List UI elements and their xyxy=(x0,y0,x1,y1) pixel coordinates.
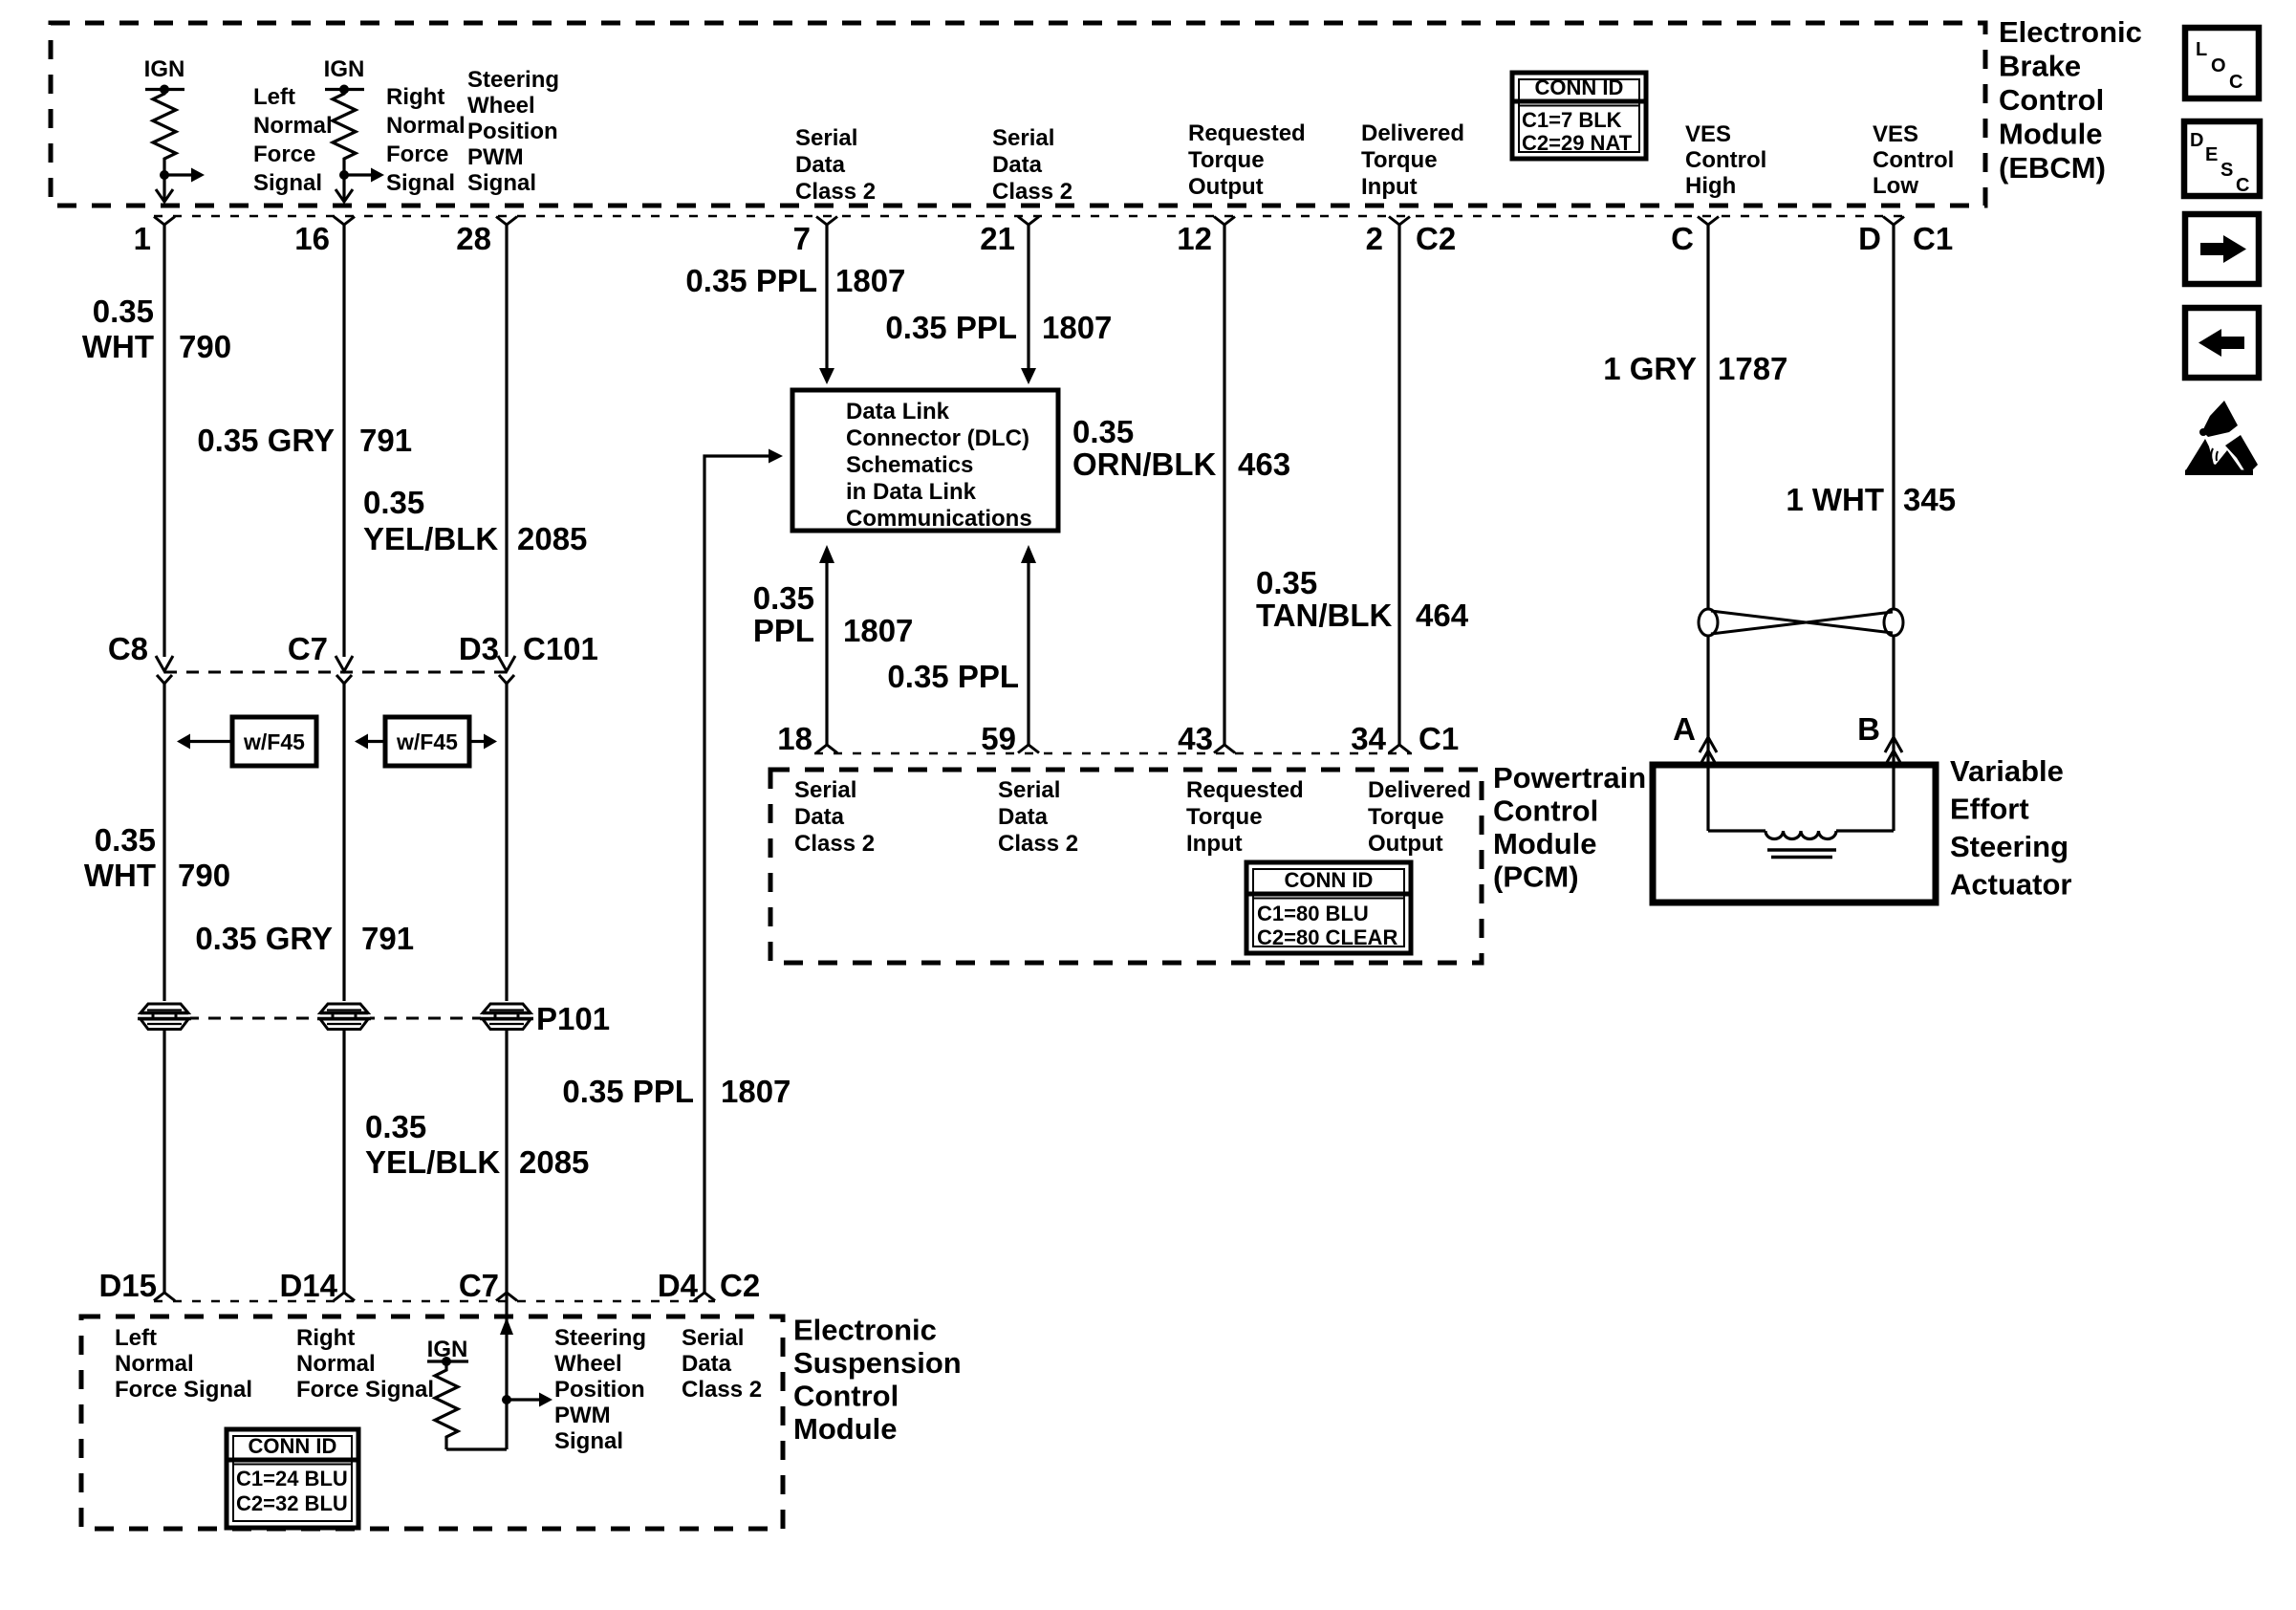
LOC icon box xyxy=(2185,28,2259,98)
svg-text:D14: D14 xyxy=(279,1268,337,1303)
svg-text:Torque: Torque xyxy=(1361,147,1438,173)
svg-text:w/F45: w/F45 xyxy=(396,729,458,754)
svg-text:VES: VES xyxy=(1685,121,1731,147)
wire pin7 down-arrow into DLC xyxy=(825,223,828,370)
svg-text:Wheel: Wheel xyxy=(554,1351,622,1377)
wire pin16 to C101 xyxy=(342,223,345,657)
svg-text:S: S xyxy=(2220,160,2233,181)
svg-text:CONN ID: CONN ID xyxy=(1535,76,1624,99)
svg-text:C1=7 BLK: C1=7 BLK xyxy=(1522,108,1622,132)
svg-text:Suspension: Suspension xyxy=(793,1346,962,1380)
EBCM CONN ID box xyxy=(1512,73,1646,159)
svg-text:D3: D3 xyxy=(459,631,499,666)
svg-text:0.35 PPL: 0.35 PPL xyxy=(562,1074,694,1109)
connector C101 dashed line xyxy=(164,671,507,674)
svg-text:ORN/BLK: ORN/BLK xyxy=(1072,446,1216,482)
svg-text:Torque: Torque xyxy=(1368,804,1444,830)
svg-text:0.35 PPL: 0.35 PPL xyxy=(887,659,1019,694)
svg-text:345: 345 xyxy=(1903,482,1956,517)
svg-text:C2: C2 xyxy=(1416,221,1456,256)
pin 1 connector Y xyxy=(154,217,175,226)
svg-text:0.35: 0.35 xyxy=(95,822,156,858)
up-arrow wire PCM pin59 to DLC xyxy=(1027,562,1029,745)
svg-text:Torque: Torque xyxy=(1186,804,1263,830)
svg-text:C2=29 NAT: C2=29 NAT xyxy=(1522,131,1633,155)
svg-text:Position: Position xyxy=(467,119,558,144)
ESCM CONN ID box xyxy=(227,1429,358,1528)
pin 21 connector Y xyxy=(1018,217,1039,226)
ESCM module dashed box xyxy=(81,1316,783,1529)
svg-text:791: 791 xyxy=(361,921,414,956)
svg-text:Normal: Normal xyxy=(386,113,466,139)
svg-text:Class 2: Class 2 xyxy=(998,831,1078,857)
svg-text:2: 2 xyxy=(1366,221,1383,256)
svg-text:0.35: 0.35 xyxy=(93,294,154,329)
svg-text:IGN: IGN xyxy=(144,56,185,82)
svg-text:Data: Data xyxy=(795,152,846,178)
svg-text:Serial: Serial xyxy=(992,125,1054,151)
svg-text:C7: C7 xyxy=(288,631,328,666)
PCM pin 34 connector Y + C1 label xyxy=(1389,745,1410,753)
svg-text:0.35: 0.35 xyxy=(365,1109,426,1144)
svg-text:1 WHT: 1 WHT xyxy=(1786,482,1884,517)
ESCM pin D15 connector Y xyxy=(154,1293,175,1301)
svg-text:1 GRY: 1 GRY xyxy=(1603,351,1697,386)
svg-text:IGN: IGN xyxy=(324,56,365,82)
svg-text:7: 7 xyxy=(793,221,811,256)
svg-text:C101: C101 xyxy=(523,631,598,666)
svg-text:Data: Data xyxy=(992,152,1043,178)
wire pin21 down-arrow into DLC xyxy=(1027,223,1029,370)
svg-text:WHT: WHT xyxy=(84,858,156,893)
svg-text:Right: Right xyxy=(296,1325,355,1351)
svg-text:1: 1 xyxy=(134,221,151,256)
PCM pin 43 connector Y xyxy=(1214,745,1235,753)
svg-text:Left: Left xyxy=(253,84,295,110)
svg-text:Control: Control xyxy=(1873,147,1954,173)
svg-text:Serial: Serial xyxy=(998,777,1060,803)
svg-text:D: D xyxy=(2190,130,2203,151)
svg-text:Powertrain: Powertrain xyxy=(1493,761,1646,794)
svg-text:Signal: Signal xyxy=(386,170,455,196)
svg-text:1807: 1807 xyxy=(721,1074,791,1109)
svg-text:(PCM): (PCM) xyxy=(1493,860,1579,894)
svg-text:Module: Module xyxy=(1493,827,1597,860)
svg-text:C1: C1 xyxy=(1419,721,1459,756)
svg-text:C1=80 BLU: C1=80 BLU xyxy=(1257,902,1369,925)
svg-text:Control: Control xyxy=(1685,147,1766,173)
PCM pin 18 connector Y xyxy=(816,745,837,753)
svg-text:E: E xyxy=(2205,144,2218,165)
svg-text:18: 18 xyxy=(777,721,812,756)
svg-text:791: 791 xyxy=(359,423,412,458)
svg-text:D: D xyxy=(1858,221,1881,256)
svg-text:C2=32 BLU: C2=32 BLU xyxy=(236,1491,348,1515)
w/F45 splice box 1 xyxy=(177,717,316,766)
C101 pass-through arrows wire1 xyxy=(156,656,173,671)
svg-text:TAN/BLK: TAN/BLK xyxy=(1256,598,1393,633)
svg-text:Delivered: Delivered xyxy=(1361,120,1464,146)
svg-text:Low: Low xyxy=(1873,173,1918,199)
svg-text:Serial: Serial xyxy=(794,777,856,803)
svg-text:C: C xyxy=(2236,175,2249,196)
VES actuator coil xyxy=(1708,831,1894,858)
svg-text:Steering: Steering xyxy=(467,67,559,93)
VES pin B chevrons + label xyxy=(1885,737,1902,752)
wire2 C101 to P101 xyxy=(342,682,345,1004)
svg-text:Actuator: Actuator xyxy=(1950,868,2071,902)
svg-text:Normal: Normal xyxy=(296,1351,376,1377)
ESCM pin C7 connector Y xyxy=(496,1293,517,1301)
EBCM module dashed box xyxy=(51,23,1985,206)
wire1 C101 to P101 xyxy=(162,682,165,1004)
svg-text:YEL/BLK: YEL/BLK xyxy=(363,521,498,556)
w/F45 splice box 2 xyxy=(355,717,497,766)
svg-text:Serial: Serial xyxy=(795,125,857,151)
left-arrow icon box xyxy=(2185,308,2259,378)
svg-text:790: 790 xyxy=(178,858,230,893)
svg-text:C2: C2 xyxy=(720,1268,760,1303)
svg-text:C8: C8 xyxy=(108,631,148,666)
svg-text:43: 43 xyxy=(1178,721,1213,756)
svg-text:Right: Right xyxy=(386,84,444,110)
ESD susceptibility symbol xyxy=(2185,401,2258,475)
grommet on wire1 xyxy=(138,1001,191,1033)
pin D connector Y + C1 label xyxy=(1883,217,1904,226)
resistor with IGN in ESCM xyxy=(427,1337,507,1449)
wire 1807 elbow with arrow into DLC left side xyxy=(704,456,770,1294)
svg-text:Module: Module xyxy=(1999,118,2103,151)
grommet on wire3 + P101 label xyxy=(480,1001,533,1033)
svg-text:Requested: Requested xyxy=(1188,120,1306,146)
wire pin12 to PCM pin43 xyxy=(1223,223,1225,745)
svg-text:Data: Data xyxy=(682,1351,732,1377)
twisted pair symbol xyxy=(1699,609,1903,636)
wire pin28 to C101 xyxy=(505,223,508,657)
svg-text:Steering: Steering xyxy=(1950,830,2069,863)
svg-text:Serial: Serial xyxy=(682,1325,744,1351)
PCM harness connector dashed line xyxy=(814,752,1412,754)
svg-text:B: B xyxy=(1857,711,1880,747)
svg-text:C: C xyxy=(2229,72,2242,93)
svg-text:Steering: Steering xyxy=(554,1325,646,1351)
pin 28 connector Y xyxy=(496,217,517,226)
VES actuator solid box xyxy=(1653,765,1936,903)
wire pin D down to VES B xyxy=(1892,223,1895,831)
svg-text:1807: 1807 xyxy=(835,263,905,298)
svg-text:Signal: Signal xyxy=(467,170,536,196)
pin 7 connector Y xyxy=(816,217,837,226)
svg-text:0.35 PPL: 0.35 PPL xyxy=(685,263,817,298)
C101 pass-through arrows wire3 xyxy=(498,656,515,671)
VES pin A chevrons + label xyxy=(1700,737,1717,752)
ESCM steering wheel position wire with up-arrow and junction xyxy=(500,1293,552,1449)
svg-text:Position: Position xyxy=(554,1377,645,1403)
svg-text:Class 2: Class 2 xyxy=(682,1377,762,1403)
svg-text:High: High xyxy=(1685,173,1736,199)
svg-text:0.35 PPL: 0.35 PPL xyxy=(885,310,1017,345)
svg-text:2085: 2085 xyxy=(519,1144,589,1180)
svg-text:Requested: Requested xyxy=(1186,777,1304,803)
wire3 C101 to P101 xyxy=(505,682,508,1004)
svg-text:463: 463 xyxy=(1238,446,1290,482)
svg-text:Data Link: Data Link xyxy=(846,399,950,424)
svg-text:1787: 1787 xyxy=(1718,351,1787,386)
svg-text:YEL/BLK: YEL/BLK xyxy=(365,1144,500,1180)
pin 12 connector Y xyxy=(1214,217,1235,226)
C101 pass-through arrows wire2 xyxy=(336,656,353,671)
svg-text:in Data Link: in Data Link xyxy=(846,479,977,505)
svg-text:0.35 GRY: 0.35 GRY xyxy=(195,921,333,956)
svg-text:Communications: Communications xyxy=(846,506,1032,532)
svg-text:0.35: 0.35 xyxy=(1072,414,1134,449)
svg-text:1807: 1807 xyxy=(843,613,913,648)
DESC icon box xyxy=(2184,121,2260,196)
svg-text:Force Signal: Force Signal xyxy=(115,1377,252,1403)
svg-text:790: 790 xyxy=(179,329,231,364)
svg-text:PWM: PWM xyxy=(554,1403,611,1428)
svg-text:1807: 1807 xyxy=(1042,310,1112,345)
svg-text:Effort: Effort xyxy=(1950,793,2029,826)
PCM module dashed box xyxy=(770,770,1482,963)
svg-text:CONN ID: CONN ID xyxy=(249,1434,337,1458)
svg-text:Connector (DLC): Connector (DLC) xyxy=(846,425,1029,451)
svg-text:Class 2: Class 2 xyxy=(795,179,876,205)
svg-text:Input: Input xyxy=(1361,174,1418,200)
svg-text:Input: Input xyxy=(1186,831,1243,857)
svg-text:59: 59 xyxy=(981,721,1016,756)
ESCM pin D4 connector Y + C2 label xyxy=(694,1293,715,1301)
svg-text:Signal: Signal xyxy=(253,170,322,196)
svg-text:C1: C1 xyxy=(1913,221,1953,256)
svg-text:L: L xyxy=(2196,39,2207,60)
pin 16 connector Y xyxy=(334,217,355,226)
resistor (Right Normal Force Signal) in EBCM xyxy=(324,56,384,202)
svg-text:Control: Control xyxy=(793,1380,899,1413)
svg-text:PWM: PWM xyxy=(467,144,524,170)
grommet on wire2 xyxy=(317,1001,371,1033)
svg-text:Data: Data xyxy=(998,804,1049,830)
svg-text:Electronic: Electronic xyxy=(1999,15,2142,49)
ESCM pin D14 connector Y xyxy=(334,1293,355,1301)
svg-text:Normal: Normal xyxy=(253,113,333,139)
svg-text:PPL: PPL xyxy=(753,613,814,648)
resistor (Left Normal Force Signal) in EBCM xyxy=(144,56,205,202)
svg-text:C: C xyxy=(1671,221,1694,256)
svg-text:12: 12 xyxy=(1177,221,1212,256)
svg-text:P101: P101 xyxy=(536,1001,610,1036)
svg-text:Output: Output xyxy=(1368,831,1443,857)
svg-text:2085: 2085 xyxy=(517,521,587,556)
svg-text:A: A xyxy=(1673,711,1696,747)
svg-text:28: 28 xyxy=(456,221,491,256)
svg-text:(EBCM): (EBCM) xyxy=(1999,151,2106,185)
svg-text:Signal: Signal xyxy=(554,1428,623,1454)
svg-text:O: O xyxy=(2211,55,2226,76)
svg-text:Control: Control xyxy=(1999,83,2104,117)
svg-text:C1=24 BLU: C1=24 BLU xyxy=(236,1467,348,1490)
svg-text:464: 464 xyxy=(1416,598,1469,633)
svg-text:Brake: Brake xyxy=(1999,50,2081,83)
svg-text:C7: C7 xyxy=(459,1268,499,1303)
svg-text:Class 2: Class 2 xyxy=(794,831,875,857)
svg-text:D4: D4 xyxy=(658,1268,699,1303)
svg-text:Variable: Variable xyxy=(1950,754,2064,788)
svg-text:C2=80 CLEAR: C2=80 CLEAR xyxy=(1257,925,1397,949)
wire pin1 to C101 xyxy=(162,223,165,657)
PCM pin 59 connector Y xyxy=(1018,745,1039,753)
svg-text:Wheel: Wheel xyxy=(467,93,535,119)
svg-text:Electronic: Electronic xyxy=(793,1314,937,1347)
svg-text:Force: Force xyxy=(386,141,448,167)
ESCM harness connector dashed line xyxy=(154,1300,715,1302)
svg-text:Schematics: Schematics xyxy=(846,452,973,478)
wire2 P101 to ESCM pin D14 xyxy=(342,1031,345,1294)
svg-text:Data: Data xyxy=(794,804,845,830)
svg-text:CONN ID: CONN ID xyxy=(1285,868,1374,892)
svg-text:Left: Left xyxy=(115,1325,157,1351)
grommet P101 dashed line xyxy=(164,1017,521,1020)
svg-text:Class 2: Class 2 xyxy=(992,179,1072,205)
svg-text:16: 16 xyxy=(294,221,330,256)
svg-text:0.35 GRY: 0.35 GRY xyxy=(197,423,335,458)
svg-text:Torque: Torque xyxy=(1188,147,1265,173)
svg-text:21: 21 xyxy=(980,221,1015,256)
up-arrow wire PCM pin18 to DLC xyxy=(825,562,828,745)
svg-text:34: 34 xyxy=(1351,721,1386,756)
right-arrow icon box xyxy=(2185,214,2259,284)
EBCM harness connector dashed line xyxy=(154,215,1904,217)
svg-text:D15: D15 xyxy=(98,1268,157,1303)
svg-text:0.35: 0.35 xyxy=(753,580,814,616)
wire1 P101 to ESCM pin D15 xyxy=(162,1031,165,1294)
wire pin C down to VES A xyxy=(1706,223,1709,831)
svg-text:0.35: 0.35 xyxy=(1256,565,1317,600)
DLC reference box xyxy=(792,390,1058,532)
svg-text:VES: VES xyxy=(1873,121,1918,147)
svg-text:Output: Output xyxy=(1188,174,1264,200)
svg-text:Force Signal: Force Signal xyxy=(296,1377,434,1403)
wire3 P101 to ESCM pin C7 xyxy=(505,1031,508,1294)
pin 2 connector Y + C2 label xyxy=(1389,217,1410,226)
pin C connector Y xyxy=(1698,217,1719,226)
svg-text:0.35: 0.35 xyxy=(363,485,424,520)
svg-text:Control: Control xyxy=(1493,794,1598,828)
wire pin2 to PCM pin34 xyxy=(1397,223,1400,745)
PCM CONN ID box xyxy=(1246,862,1411,953)
svg-text:Module: Module xyxy=(793,1412,898,1446)
svg-text:Normal: Normal xyxy=(115,1351,194,1377)
svg-text:w/F45: w/F45 xyxy=(243,729,305,754)
svg-text:Force: Force xyxy=(253,141,315,167)
svg-text:WHT: WHT xyxy=(82,329,154,364)
svg-text:Delivered: Delivered xyxy=(1368,777,1471,803)
